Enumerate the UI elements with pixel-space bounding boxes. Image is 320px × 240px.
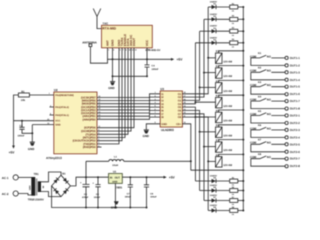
svg-text:18: 18 [98,98,100,101]
node +5V (MCU) [9,121,16,155]
resistor R1 [18,90,29,102]
microcontroller U2 ATtiny2313 [46,88,97,160]
svg-text:470uF: 470uF [82,196,89,199]
wire PD0 stub [97,144,102,147]
wire module GND pin [112,48,114,82]
svg-text:15: 15 [184,101,186,104]
svg-text:14: 14 [184,105,186,108]
svg-text:10: 10 [129,49,131,52]
svg-text:NO: NO [267,55,271,58]
wire PB1 to ULN I7 [97,111,160,116]
RF module U4 RTX-MID [102,22,153,52]
relay contact K8 [250,153,288,168]
svg-text:OUT2-7: OUT2-7 [290,157,300,161]
wire O4 to channel 4 rail [182,43,195,104]
svg-text:1: 1 [155,91,156,94]
wire coil K6 to +12V rail [219,124,245,127]
svg-text:13: 13 [98,114,100,117]
wire XTAL stubs [50,104,54,115]
wire GND pin [32,122,54,142]
svg-text:9: 9 [98,128,99,131]
wire R1 to RESET pin 1 [29,92,53,95]
wire coil K2 to +12V rail [219,65,245,68]
svg-text:U3: U3 [160,87,164,91]
svg-text:10: 10 [184,121,186,124]
svg-text:NO: NO [267,70,271,73]
svg-text:18: 18 [184,91,186,94]
node AC-1 [2,175,19,180]
wire module pin to PD3 [97,48,125,138]
capacitor C7 [125,177,133,207]
svg-text:1k: 1k [232,193,235,196]
svg-text:10k: 10k [21,99,26,102]
svg-text:PA1(XTAL2): PA1(XTAL2) [55,106,69,109]
diode D6 [200,184,230,193]
diode D8 [208,204,230,213]
svg-text:TRSF.230/9V: TRSF.230/9V [28,198,44,201]
wire to +12V rail [238,190,245,192]
svg-text:NO: NO [267,113,271,116]
wire secondary top to bridge [41,172,61,182]
svg-text:OUT2-1: OUT2-1 [290,114,300,118]
wire to +12V rail [238,200,245,202]
svg-text:8: 8 [126,49,127,52]
svg-text:GND: GND [108,86,114,90]
svg-text:11: 11 [184,115,186,118]
wire coil K8 to +12V rail [219,153,245,156]
diode D5 [195,175,229,184]
wire to +12V rail [238,6,245,8]
diode D3 [200,25,230,34]
svg-text:K5: K5 [258,110,262,113]
svg-text:12V-4W: 12V-4W [223,75,233,78]
svg-text:9V: 9V [42,185,45,188]
wire O5 to channel 5 rail [182,105,195,182]
svg-text:OUT2-5: OUT2-5 [290,142,300,146]
svg-text:4: 4 [50,104,51,107]
svg-text:GND: GND [28,147,34,151]
svg-text:OUT2-3: OUT2-3 [290,128,300,132]
svg-text:16: 16 [98,104,100,107]
driver U3 ULN2803 [160,87,182,132]
svg-text:100nF: 100nF [18,135,25,138]
resistor R2 [230,15,238,25]
svg-text:3: 3 [120,49,121,52]
svg-text:OUT1-4: OUT1-4 [290,78,300,82]
wire bridge + output [70,176,108,186]
svg-text:U2: U2 [54,88,58,92]
wire coil K8 drive [207,160,215,162]
svg-text:2: 2 [155,95,156,98]
svg-text:13: 13 [135,49,137,52]
svg-text:OUT1-1: OUT1-1 [290,56,300,60]
svg-text:1k: 1k [232,34,235,37]
wire coil K4 drive [194,101,215,103]
capacitor C4 [145,59,159,76]
wire O6 to channel 6 rail [182,108,199,191]
antenna [93,9,101,29]
node AC-2 [2,191,19,196]
resistor R5 [230,176,238,186]
svg-text:O8: O8 [178,116,182,119]
svg-text:+: + [92,182,94,185]
svg-text:5: 5 [50,112,51,115]
svg-text:20: 20 [47,118,49,121]
svg-text:+: + [80,181,82,184]
wire secondary bottom to bridge [41,192,61,197]
svg-text:OUT: OUT [115,177,121,180]
wire ULN CD+ to +12V [182,121,190,170]
wire coil K4 to +12V rail [219,94,245,97]
wire O2 to channel 2 rail [182,19,204,97]
relay coil K6 [216,124,233,137]
wire coil K1 drive [207,57,215,59]
bridge rectifier B1 [52,173,71,197]
relay coil K8 [216,154,233,167]
svg-text:+5V: +5V [9,151,16,155]
wire PB3 to ULN I5 [97,105,160,111]
svg-text:1k: 1k [232,22,235,25]
wire ULN GND [146,121,160,130]
wire O7 to channel 7 rail [182,111,204,200]
svg-text:ANT: ANT [106,40,110,46]
svg-text:OUT1-6: OUT1-6 [290,92,300,96]
svg-text:PA0(XTAL1): PA0(XTAL1) [55,114,69,117]
svg-text:7: 7 [123,49,124,52]
svg-text:9: 9 [155,121,156,124]
svg-text:C4: C4 [152,64,156,67]
relay contact K1 [250,52,288,67]
wire coil K5 to +12V rail [219,109,245,112]
svg-text:7805: 7805 [116,185,123,189]
svg-text:ULN2803: ULN2803 [161,128,174,132]
svg-text:230V: 230V [28,185,31,190]
wire coil K6 drive [199,131,216,133]
diode D4 [195,36,229,45]
wire O3 to channel 3 rail [182,31,199,101]
wire to +12V rail [238,180,245,182]
svg-text:1k: 1k [232,203,235,206]
svg-text:3: 3 [98,141,99,144]
relay contact K7 [250,139,288,154]
svg-text:6: 6 [98,138,99,141]
svg-text:1: 1 [108,49,109,52]
wire to +12V rail [238,210,245,212]
diode D2 [204,13,230,22]
svg-text:OUT2-2: OUT2-2 [290,121,300,125]
svg-text:OUT1-3: OUT1-3 [290,70,300,74]
svg-text:GND: GND [143,134,149,138]
wire PB5 to ULN I3 [97,98,160,104]
svg-text:1k: 1k [232,213,235,216]
diode D1 [208,1,230,10]
svg-text:16: 16 [184,98,186,101]
svg-text:C7: C7 [127,193,131,196]
svg-text:NO: NO [267,127,271,130]
svg-text:12V-4W: 12V-4W [223,164,233,167]
wire module pin to PD4 [97,48,128,135]
svg-text:OUT2-4: OUT2-4 [290,135,300,139]
relay coil K7 [216,139,233,152]
capacitor C5 [80,161,90,207]
node +5V (module) [171,58,183,62]
svg-text:R5: R5 [232,176,234,179]
relay coil K2 [216,65,233,78]
svg-text:C6: C6 [96,193,100,196]
svg-text:VCC: VCC [145,39,149,46]
wire O8 to channel 8 rail [182,115,208,211]
svg-text:R1: R1 [232,2,234,5]
svg-text:R7: R7 [232,196,234,199]
wire coil K5 drive [194,116,215,118]
svg-text:R6: R6 [232,186,234,189]
svg-text:DOUT: DOUT [132,38,136,47]
svg-text:K6: K6 [258,124,262,127]
svg-text:VCC: VCC [55,120,60,123]
ground (ULN) [143,130,149,138]
diode D7 [204,194,230,203]
svg-text:1k: 1k [232,45,235,48]
svg-text:10: 10 [47,122,49,125]
svg-text:5: 5 [155,105,156,108]
wire coil K2 drive [203,72,216,74]
svg-text:B1: B1 [62,173,66,176]
svg-text:11: 11 [132,49,134,52]
svg-text:+5V: +5V [169,176,176,180]
wire R1 to +5V rail [14,95,19,121]
relay contact K2 [250,67,288,82]
svg-text:K4: K4 [258,95,262,98]
svg-text:4: 4 [155,101,156,104]
svg-text:R3: R3 [232,27,234,30]
svg-text:100nF: 100nF [152,68,159,71]
svg-text:3: 3 [155,98,156,101]
wire AC-1 to transformer [18,176,33,178]
wire O1 to channel 1 rail [182,7,208,94]
svg-text:17: 17 [98,101,100,104]
svg-text:L1: L1 [114,156,117,159]
wire L1 to +12V node [124,160,192,162]
wire to +12V rail [238,18,245,20]
wire ANT pin to antenna pad [89,44,108,63]
wire module pin to PD6 [97,48,134,128]
svg-text:TXC: TXC [103,22,109,26]
svg-text:12V-4W: 12V-4W [223,90,233,93]
svg-text:OUT2-6: OUT2-6 [290,150,300,154]
svg-text:15: 15 [98,107,100,110]
svg-text:K3: K3 [258,81,262,84]
wire PB6 to ULN I2 [97,95,160,101]
svg-text:19: 19 [98,95,100,98]
svg-text:OUT1-5: OUT1-5 [290,85,300,89]
wire module pin to PD5 [97,48,131,132]
relay contact K4 [250,95,288,110]
wire coil K3 drive [199,86,216,88]
svg-text:11: 11 [98,125,100,128]
resistor R7 [230,196,238,206]
svg-text:NO: NO [267,156,271,159]
wire module gnd bus [112,75,149,77]
svg-text:2: 2 [98,144,99,147]
wire PB0 to ULN I8 [97,115,160,120]
resistor R8 [230,206,238,216]
wire coil K3 to +12V rail [219,79,245,82]
svg-text:K1: K1 [258,52,262,55]
svg-text:OUT1-7: OUT1-7 [290,99,300,103]
capacitor C9 [144,177,157,208]
svg-text:GND: GND [112,180,117,183]
svg-text:(RXD)PD0: (RXD)PD0 [83,146,96,149]
svg-text:K7: K7 [258,139,262,142]
resistor R4 [230,38,238,48]
svg-text:12V-4W: 12V-4W [223,120,233,123]
svg-text:7: 7 [98,135,99,138]
wire module pin to PD2 [97,48,122,141]
svg-text:100uF: 100uF [94,196,101,199]
svg-text:AC-2: AC-2 [2,192,9,196]
svg-text:(AIN0)PB0: (AIN0)PB0 [82,118,96,121]
svg-text:OUT1-2: OUT1-2 [290,63,300,67]
capacitor C8 [18,121,34,138]
svg-text:12V-4W: 12V-4W [223,60,233,63]
svg-text:8: 8 [155,115,156,118]
svg-text:RTX-MID-5V: RTX-MID-5V [146,49,161,52]
svg-text:RTX-MID: RTX-MID [102,26,116,30]
svg-text:2: 2 [113,49,114,52]
svg-text:R1: R1 [21,90,25,93]
wire PB2 to ULN I6 [97,108,160,114]
relay contact K6 [250,124,288,139]
wire +12V rail [242,7,244,211]
resistor R6 [230,186,238,196]
relay contact K5 [250,110,288,125]
svg-text:TR1: TR1 [34,173,40,176]
svg-text:100nF: 100nF [125,196,132,199]
svg-text:+5V: +5V [177,58,184,62]
svg-text:PA2(RESET/dW): PA2(RESET/dW) [55,94,74,97]
wire coil K1 to +12V rail [219,50,245,53]
wire coil K7 drive [203,146,216,148]
wire AC-2 to transformer [18,194,33,196]
node +5V (power) [164,176,176,180]
wire to +12V rail [238,42,245,44]
svg-text:GND: GND [111,205,117,209]
svg-text:12: 12 [98,117,100,120]
wire regulator GND [114,183,116,207]
svg-text:6: 6 [155,108,156,111]
svg-text:R2: R2 [232,15,234,18]
svg-text:17: 17 [184,95,186,98]
svg-text:NO: NO [267,99,271,102]
wire +5V rail [122,176,163,178]
svg-text:R8: R8 [232,206,234,209]
svg-text:OUT2-8: OUT2-8 [290,164,300,168]
svg-text:12V-4W: 12V-4W [223,134,233,137]
svg-text:C9: C9 [150,193,154,196]
svg-text:GND: GND [55,124,61,127]
svg-text:13: 13 [184,108,186,111]
wire bridge - to ground bus [52,186,147,209]
transformer TR1 [28,173,45,201]
regulator U1 7805 [109,171,123,190]
svg-text:ATtiny2313: ATtiny2313 [46,156,62,160]
wire PB4 to ULN I4 [97,101,160,107]
ground (regulator) [111,201,119,209]
svg-text:GND: GND [161,123,167,126]
svg-text:1: 1 [49,92,50,95]
resistor R3 [230,27,238,37]
capacitor C6 [92,177,100,207]
wire PB7 to ULN I1 [97,91,160,98]
svg-text:12V-4W: 12V-4W [223,105,233,108]
wire +5V line from module [108,48,172,61]
relay coil K1 [216,50,233,63]
wire coil K7 to +12V rail [219,139,245,142]
svg-text:1k: 1k [232,10,235,13]
svg-text:12: 12 [184,111,186,114]
ground (module) [108,82,115,91]
svg-text:IN: IN [110,177,113,180]
svg-text:NO: NO [267,142,271,145]
svg-text:GND: GND [111,39,115,47]
svg-text:OUT1-8: OUT1-8 [290,107,300,111]
ground (MCU) [28,142,35,151]
wire VCC pin [14,118,54,122]
svg-text:AC-1: AC-1 [2,176,9,180]
wire to +12V rail [238,30,245,32]
svg-text:100uF: 100uF [150,196,157,199]
relay contact K3 [250,81,288,96]
svg-text:ANTENNA: ANTENNA [82,40,97,44]
relay coil K4 [216,95,233,108]
svg-text:10uH: 10uH [112,164,118,167]
svg-text:NO: NO [267,84,271,87]
svg-text:12V-4W: 12V-4W [223,149,233,152]
svg-text:7: 7 [155,111,156,114]
svg-text:C5: C5 [84,193,88,196]
wire module pin to PD1 [97,48,119,144]
relay coil K5 [216,109,233,122]
svg-text:CD+: CD+ [176,123,182,126]
svg-text:8: 8 [98,132,99,135]
svg-text:K8: K8 [258,153,262,156]
svg-text:K2: K2 [258,67,262,70]
relay coil K3 [216,80,233,93]
resistor R1 [230,2,238,12]
wire +12V bus to rail [191,169,245,171]
svg-text:14: 14 [98,110,100,113]
inductor L1 [86,156,124,167]
